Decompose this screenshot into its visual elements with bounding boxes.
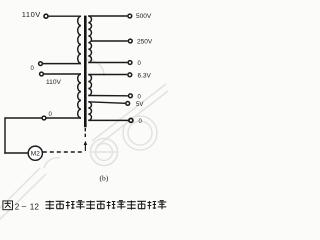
terminal 0 W2: [129, 94, 133, 98]
terminal 500V: [128, 14, 132, 18]
terminal 0 mid-left: [39, 62, 43, 66]
node 0 on P2 bottom wire: [42, 116, 46, 120]
wire tap 0 (W1 bottom): [88, 62, 127, 64]
terminal 250V: [128, 39, 132, 43]
wire 110V-lower terminal to P2 top: [44, 73, 81, 75]
wire bottom to meter: [4, 152, 28, 154]
svg-text:0: 0: [49, 112, 53, 118]
svg-text:M2: M2: [31, 151, 40, 158]
watermark arcs (decorative): [0, 60, 168, 220]
winding P2 (lower primary 110V): [78, 74, 81, 118]
wire tap 5V: [88, 102, 125, 104]
svg-text:110V: 110V: [22, 10, 41, 19]
svg-text:0: 0: [138, 94, 142, 100]
terminal 110V lower: [40, 72, 44, 76]
arrow pointing up at core: [84, 144, 86, 152]
winding P1 (upper primary 110V): [78, 16, 81, 63]
meter M2: [28, 146, 42, 160]
wire P2 bottom to left: [5, 117, 81, 119]
winding W2 (6.3V secondary): [88, 75, 91, 96]
wire tap 0 (W3 bottom): [88, 119, 128, 121]
svg-text:110V: 110V: [46, 79, 62, 86]
terminal 110V top: [44, 14, 48, 18]
wire 0-terminal to P1 bottom: [43, 63, 81, 65]
core (iron core bar): [84, 16, 87, 128]
svg-text:–: –: [22, 202, 27, 211]
svg-text:0: 0: [139, 119, 143, 125]
svg-text:500V: 500V: [136, 13, 152, 20]
wire left vertical: [4, 117, 6, 153]
terminal 5V: [126, 102, 130, 106]
svg-text:0: 0: [31, 66, 35, 72]
svg-text:(b): (b): [100, 174, 109, 183]
svg-text:250V: 250V: [137, 39, 153, 46]
svg-text:6.3V: 6.3V: [138, 73, 152, 80]
svg-text:5V: 5V: [136, 102, 143, 108]
wire 110V-top to primary P1: [49, 15, 81, 17]
wire tap 6.3V: [88, 74, 127, 76]
wire dashed from M2 to core: [43, 151, 82, 153]
winding W1 (secondary 500V/250V/0): [88, 16, 91, 62]
winding W3 (5V secondary): [88, 102, 91, 121]
wire tap 500V: [88, 15, 127, 17]
wire tap 0 (W2 bottom): [88, 95, 128, 97]
terminal 0 W1: [128, 61, 132, 65]
terminal 0 W3: [129, 118, 133, 122]
wire tap 250V: [92, 40, 128, 42]
caption figure number 图 2-12: [3, 201, 13, 210]
svg-text:2: 2: [15, 202, 20, 211]
terminal 6.3V: [128, 73, 132, 77]
core dashed extension: [84, 128, 86, 139]
svg-text:0: 0: [138, 61, 142, 67]
svg-text:12: 12: [30, 202, 40, 211]
caption text 变压器主要故障的测试方法 (stylized strokes): [46, 201, 167, 210]
